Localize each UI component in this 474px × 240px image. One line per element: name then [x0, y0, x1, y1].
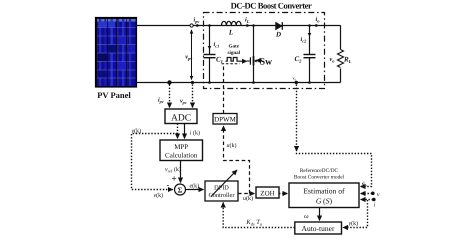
input i to estimation [361, 199, 374, 201]
svg-text:Σ: Σ [178, 186, 183, 195]
node open circle [190, 24, 193, 27]
svg-text:Auto-tuner: Auto-tuner [302, 224, 335, 233]
wire i(k) from ADC [184, 124, 186, 139]
capacitor C1 [209, 26, 211, 55]
svg-text:v(k): v(k) [154, 192, 164, 199]
v(k) feedback branch [132, 134, 178, 190]
v_o sense dotted path [297, 85, 372, 187]
svg-text:L: L [228, 29, 233, 37]
current arrow i_o [313, 25, 319, 27]
svg-text:vref (k): vref (k) [165, 166, 181, 173]
sense line v_pv to ADC [192, 85, 194, 108]
current arrow i_c1 [209, 38, 211, 49]
svg-text:MPP: MPP [174, 143, 188, 151]
junction dots top rail [208, 24, 211, 27]
wire top rail [136, 25, 341, 27]
Auto-tuner block [295, 222, 342, 234]
arrow to Sw [256, 60, 260, 62]
current arrow i_L [244, 25, 250, 27]
node v_o sense [295, 81, 298, 84]
svg-text:Sw: Sw [260, 56, 272, 67]
svg-text:Boost Converter model: Boost Converter model [294, 175, 345, 181]
converter boundary dash-dot box [204, 13, 325, 89]
svg-text:ω: ω [304, 213, 309, 220]
svg-text:vpv: vpv [180, 99, 187, 105]
dashed u(k) path to DPWM [224, 127, 250, 194]
y(k) dotted path to Auto-tuner [344, 200, 368, 228]
switch branch wire [253, 26, 255, 57]
wire bottom rail [136, 82, 341, 84]
wire u(k) DPID to ZOH [238, 193, 255, 195]
summing junction [175, 184, 186, 195]
svg-text:u(k): u(k) [243, 195, 253, 202]
wire v(k) from ADC [177, 124, 179, 139]
svg-text:i (k): i (k) [190, 130, 200, 137]
dotted ZOH to Estimation [279, 193, 288, 195]
svg-text:ADC: ADC [171, 114, 191, 124]
MPP Calculation block [160, 140, 203, 161]
svg-text:G (S): G (S) [316, 197, 333, 206]
wire e(k) [186, 189, 204, 191]
svg-text:v: v [377, 192, 380, 198]
svg-text:Estimation of: Estimation of [303, 187, 345, 196]
svg-text:signal: signal [228, 50, 241, 56]
PV panel [96, 18, 137, 88]
svg-text:D: D [275, 31, 281, 39]
svg-text:e(k): e(k) [190, 183, 200, 190]
svg-text:y(k): y(k) [348, 220, 359, 227]
adaptive arrow through DPID [211, 170, 237, 197]
capacitor C2 [309, 26, 311, 55]
DPWM block [213, 114, 237, 125]
inductor L [222, 21, 242, 25]
svg-text:Calculation: Calculation [165, 152, 198, 160]
svg-text:ReferenceDC/DC: ReferenceDC/DC [300, 168, 339, 174]
ADC block [165, 109, 197, 124]
gate waveform [226, 58, 240, 62]
current arrow i_c2 [309, 29, 311, 37]
wire v_ref to summer [180, 161, 182, 183]
voltage arrow v_pv [191, 30, 193, 80]
svg-text:u(k): u(k) [227, 142, 237, 149]
K T dotted path Auto-tuner to DPID [223, 203, 295, 228]
wire right rail [340, 26, 342, 50]
diode D [276, 22, 282, 30]
MOSFET Sw [247, 56, 254, 66]
current arrow i_pv [196, 25, 200, 27]
resistor RL [338, 50, 344, 68]
svg-text:PV Panel: PV Panel [97, 90, 131, 100]
omega wire Estimation to Auto-tuner [319, 208, 321, 221]
junction dots bottom rail [167, 80, 171, 84]
ZOH block [256, 187, 279, 198]
DPID Controller block [205, 181, 238, 201]
svg-text:DPWM: DPWM [214, 116, 237, 124]
input v to estimation [361, 193, 373, 195]
Estimation block [289, 183, 359, 208]
dashed gate path DPWM to Sw [223, 64, 225, 114]
svg-text:+: + [172, 174, 177, 184]
svg-text:Gate: Gate [229, 44, 240, 50]
sense line i_pv to ADC [169, 85, 171, 108]
svg-text:-: - [167, 181, 170, 190]
svg-text:ZOH: ZOH [260, 190, 274, 198]
svg-text:DC-DC Boost Converter: DC-DC Boost Converter [231, 1, 312, 11]
